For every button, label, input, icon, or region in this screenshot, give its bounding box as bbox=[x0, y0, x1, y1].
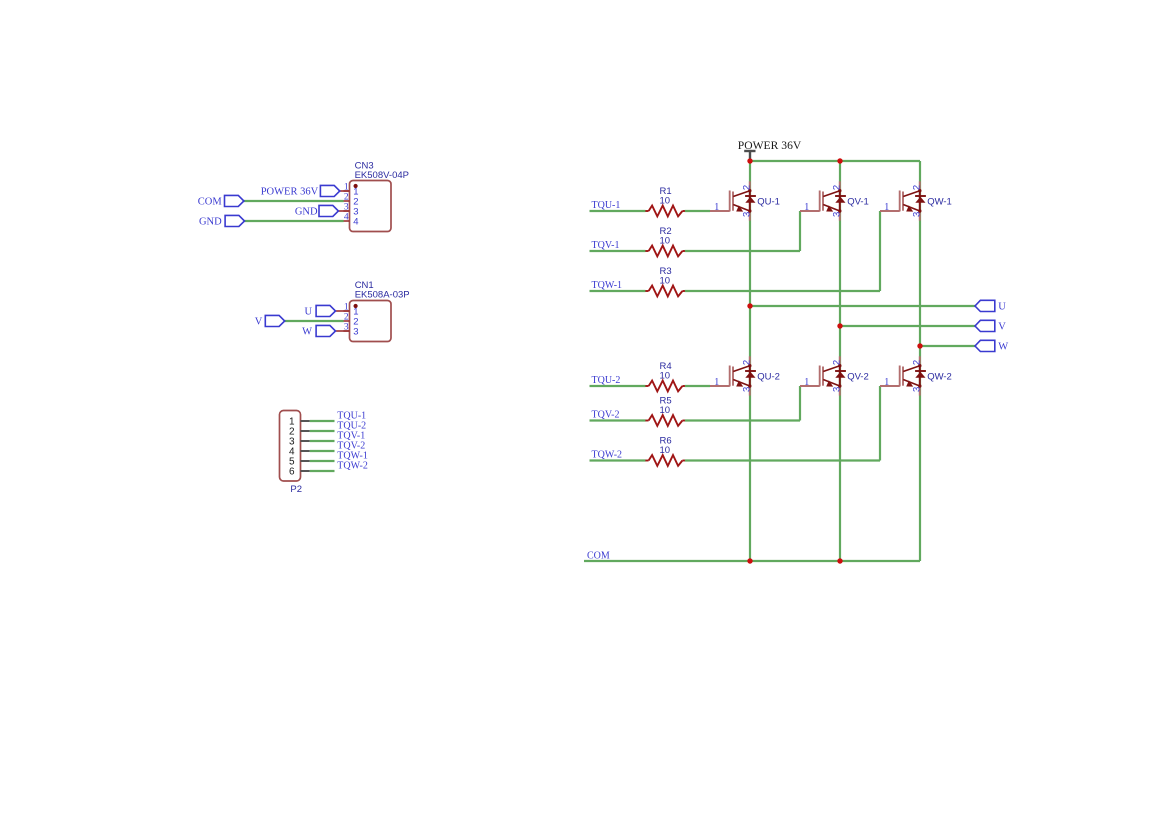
resistor R6 10 bbox=[645, 436, 685, 466]
svg-text:1: 1 bbox=[804, 377, 809, 388]
wire W output bbox=[920, 345, 975, 347]
svg-text:TQW-1: TQW-1 bbox=[592, 280, 623, 291]
svg-text:2: 2 bbox=[741, 360, 752, 365]
resistor R4 10 bbox=[645, 361, 685, 391]
wire P2 pin 4 bbox=[310, 450, 335, 452]
junction U node bbox=[747, 303, 752, 308]
svg-text:POWER 36V: POWER 36V bbox=[261, 187, 319, 198]
wire QV column vertical bbox=[839, 161, 841, 561]
svg-text:3: 3 bbox=[741, 212, 752, 217]
wire V output bbox=[840, 325, 975, 327]
svg-text:10: 10 bbox=[660, 445, 671, 456]
net label GND at CN3 pin 3 bbox=[295, 205, 350, 217]
wire P2 pin 1 bbox=[310, 420, 335, 422]
net label U at CN1 pin 1 bbox=[305, 305, 350, 317]
wire TQU-2 right segment bbox=[685, 385, 710, 387]
svg-text:10: 10 bbox=[660, 370, 671, 381]
svg-text:QW-2: QW-2 bbox=[927, 371, 952, 382]
junction power rail / QU bbox=[747, 158, 752, 163]
wire QU column vertical bbox=[749, 161, 751, 561]
svg-text:TQV-1: TQV-1 bbox=[592, 240, 620, 251]
wire P2 pin 5 bbox=[310, 460, 335, 462]
svg-text:V: V bbox=[998, 322, 1006, 333]
svg-text:4: 4 bbox=[353, 216, 358, 227]
wire TQV-2 left segment bbox=[590, 419, 646, 421]
svg-text:3: 3 bbox=[911, 387, 922, 392]
svg-text:QU-2: QU-2 bbox=[757, 371, 780, 382]
wire P2 pin 3 bbox=[310, 440, 335, 442]
svg-text:2: 2 bbox=[344, 313, 349, 323]
resistor R1 10 bbox=[645, 186, 685, 216]
CN1 pin 2 stub bbox=[343, 320, 349, 322]
net label V output bbox=[975, 320, 1006, 332]
svg-text:TQU-1: TQU-1 bbox=[592, 200, 621, 211]
svg-text:2: 2 bbox=[344, 193, 349, 203]
svg-text:2: 2 bbox=[911, 360, 922, 365]
CN3 pin 1 stub bbox=[343, 190, 349, 192]
P2 pin 1 stub bbox=[301, 420, 310, 422]
transistor QV-2 (IGBT with freewheel diode) bbox=[800, 356, 869, 395]
svg-text:1: 1 bbox=[804, 202, 809, 213]
wire TQW-2 left segment bbox=[590, 459, 646, 461]
transistor QU-1 (IGBT with freewheel diode) bbox=[710, 181, 780, 220]
P2 pin 3 stub bbox=[301, 440, 310, 442]
transistor QW-1 (IGBT with freewheel diode) bbox=[880, 181, 952, 220]
svg-text:3: 3 bbox=[831, 212, 842, 217]
wire TQU-1 left segment bbox=[590, 210, 646, 212]
resistor R3 10 bbox=[645, 266, 685, 296]
net label GND (left) bbox=[199, 215, 245, 227]
P2 pin 2 stub bbox=[301, 430, 310, 432]
svg-text:GND: GND bbox=[199, 217, 222, 228]
wire TQW-1 vertical jog bbox=[879, 211, 881, 291]
svg-text:W: W bbox=[302, 327, 312, 338]
resistor R5 10 bbox=[645, 396, 685, 426]
svg-text:3: 3 bbox=[911, 212, 922, 217]
svg-text:QU-1: QU-1 bbox=[757, 196, 780, 207]
transistor QU-2 (IGBT with freewheel diode) bbox=[710, 356, 780, 395]
svg-text:1: 1 bbox=[884, 202, 889, 213]
CN1 pin 3 stub bbox=[343, 330, 349, 332]
svg-text:TQW-2: TQW-2 bbox=[337, 460, 368, 471]
svg-text:1: 1 bbox=[884, 377, 889, 388]
svg-text:2: 2 bbox=[911, 185, 922, 190]
transistor QW-2 (IGBT with freewheel diode) bbox=[880, 356, 952, 395]
wire COM to CN3 pin 2 bbox=[244, 200, 344, 202]
wire TQU-2 left segment bbox=[590, 385, 646, 387]
P2 pin 5 stub bbox=[301, 460, 310, 462]
connector CN3 EK508V-04P bbox=[350, 160, 410, 231]
svg-text:3: 3 bbox=[831, 387, 842, 392]
svg-text:U: U bbox=[998, 302, 1006, 313]
svg-text:1: 1 bbox=[714, 202, 719, 213]
wire TQW-1 right segment bbox=[685, 290, 880, 292]
junction COM / QU bbox=[747, 558, 752, 563]
wire POWER rail top bbox=[750, 160, 920, 162]
transistor QV-1 (IGBT with freewheel diode) bbox=[800, 181, 869, 220]
wire TQW-1 left segment bbox=[590, 290, 646, 292]
wire TQW-2 vertical jog bbox=[879, 386, 881, 461]
svg-text:10: 10 bbox=[660, 405, 671, 416]
svg-text:EK508V-04P: EK508V-04P bbox=[355, 170, 409, 181]
svg-text:2: 2 bbox=[831, 185, 842, 190]
wire GND to CN3 pin 4 bbox=[245, 220, 344, 222]
CN3 pin 3 stub bbox=[343, 210, 349, 212]
CN3 pin 4 stub bbox=[343, 220, 349, 222]
svg-text:QW-1: QW-1 bbox=[927, 196, 952, 207]
svg-text:1: 1 bbox=[714, 377, 719, 388]
svg-text:V: V bbox=[255, 317, 263, 328]
svg-text:P2: P2 bbox=[290, 484, 302, 495]
svg-text:6: 6 bbox=[289, 467, 295, 478]
svg-text:TQW-2: TQW-2 bbox=[592, 450, 623, 461]
CN3 pin 2 stub bbox=[343, 200, 349, 202]
svg-text:QV-2: QV-2 bbox=[847, 371, 869, 382]
power symbol POWER 36V bbox=[738, 139, 802, 159]
svg-text:TQV-2: TQV-2 bbox=[592, 410, 620, 421]
svg-text:10: 10 bbox=[660, 275, 671, 286]
junction power rail / QV bbox=[837, 158, 842, 163]
wire TQU-1 right segment bbox=[685, 210, 710, 212]
net label W output bbox=[975, 340, 1008, 352]
svg-text:QV-1: QV-1 bbox=[847, 196, 869, 207]
wire TQV-1 left segment bbox=[590, 250, 646, 252]
wire P2 pin 6 bbox=[310, 470, 335, 472]
P2 pin 6 stub bbox=[301, 470, 310, 472]
svg-text:U: U bbox=[305, 307, 313, 318]
svg-text:GND: GND bbox=[295, 207, 318, 218]
svg-text:W: W bbox=[998, 342, 1008, 353]
svg-text:3: 3 bbox=[353, 326, 358, 337]
junction W node bbox=[917, 343, 922, 348]
net label W at CN1 pin 3 bbox=[302, 325, 349, 337]
svg-text:2: 2 bbox=[741, 185, 752, 190]
svg-text:4: 4 bbox=[344, 213, 349, 223]
wire U output bbox=[750, 305, 975, 307]
net label U output bbox=[975, 300, 1006, 312]
svg-text:COM: COM bbox=[587, 550, 610, 561]
junction V node bbox=[837, 323, 842, 328]
wire TQV-2 vertical jog bbox=[799, 386, 801, 421]
CN1 pin 1 stub bbox=[343, 310, 349, 312]
connector P2 header bbox=[280, 411, 303, 496]
svg-text:2: 2 bbox=[831, 360, 842, 365]
P2 pin 4 stub bbox=[301, 450, 310, 452]
wire TQV-1 right segment bbox=[685, 250, 800, 252]
svg-text:10: 10 bbox=[660, 195, 671, 206]
svg-text:3: 3 bbox=[741, 387, 752, 392]
resistor R2 10 bbox=[645, 226, 685, 256]
wire V to CN1 pin 2 bbox=[285, 320, 344, 322]
wire QW column vertical bbox=[919, 161, 921, 561]
wire P2 pin 2 bbox=[310, 430, 335, 432]
net label V bbox=[255, 315, 285, 327]
junction COM / QV bbox=[837, 558, 842, 563]
svg-text:EK508A-03P: EK508A-03P bbox=[355, 290, 410, 301]
svg-text:COM: COM bbox=[198, 197, 223, 208]
wire TQV-2 right segment bbox=[685, 419, 800, 421]
wire COM rail bottom bbox=[584, 560, 920, 562]
net label COM bbox=[198, 195, 244, 207]
connector CN1 EK508A-03P bbox=[350, 280, 410, 342]
svg-text:10: 10 bbox=[660, 235, 671, 246]
svg-text:TQU-2: TQU-2 bbox=[592, 375, 621, 386]
wire TQV-1 vertical jog bbox=[799, 211, 801, 251]
net label POWER 36V at CN3 pin 1 bbox=[261, 185, 350, 197]
wire TQW-2 right segment bbox=[685, 459, 880, 461]
